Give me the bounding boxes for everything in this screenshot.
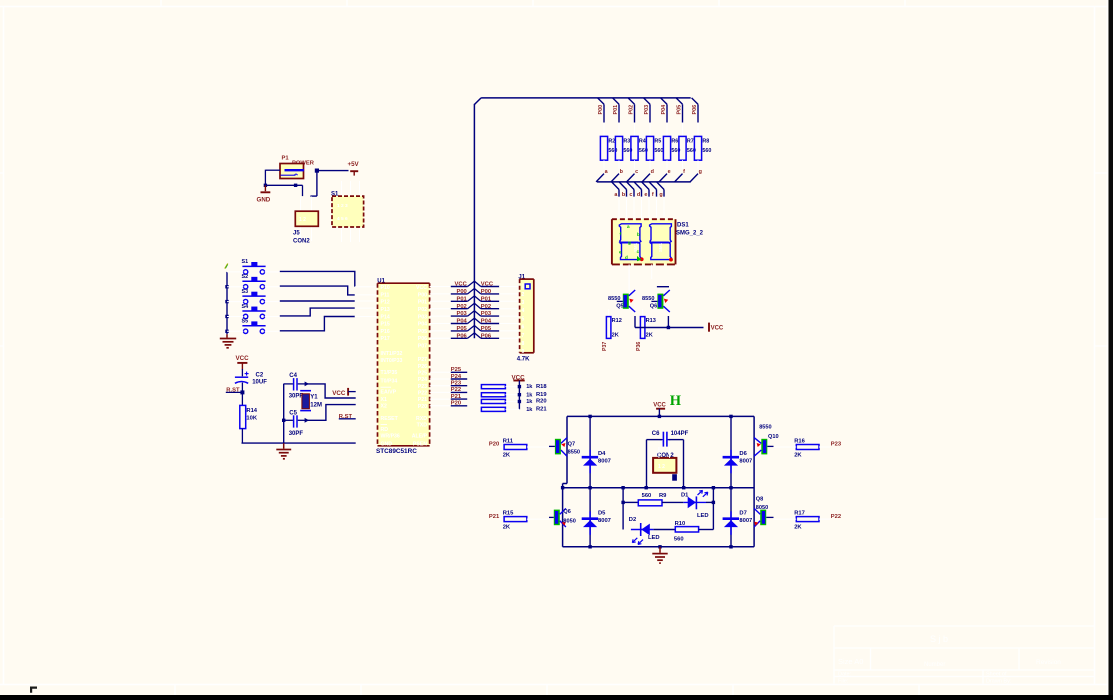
wire X1 bbox=[306, 384, 356, 398]
svg-text:560: 560 bbox=[702, 148, 711, 154]
power VCC bridge bbox=[653, 402, 666, 416]
svg-text:R2: R2 bbox=[608, 139, 615, 145]
bus entry P03 bbox=[644, 98, 650, 123]
wire switch common bus bbox=[226, 272, 228, 334]
svg-text:P21: P21 bbox=[418, 397, 427, 403]
svg-text:Q6: Q6 bbox=[650, 304, 657, 310]
net label P06 left bbox=[430, 333, 475, 340]
svg-text:560: 560 bbox=[642, 493, 652, 499]
IC U1 STC89C51RC bbox=[376, 279, 430, 455]
svg-text:GND: GND bbox=[381, 442, 393, 448]
svg-text:R16: R16 bbox=[794, 438, 805, 444]
svg-text:INT0/P33: INT0/P33 bbox=[381, 358, 403, 364]
transistor Q5 8550 bbox=[608, 279, 635, 312]
junction bbox=[645, 486, 648, 489]
svg-text:Size A0: Size A0 bbox=[838, 657, 863, 666]
svg-text:S1: S1 bbox=[242, 259, 249, 265]
svg-text:c: c bbox=[635, 169, 638, 175]
wire P1 to GND and +5V bbox=[265, 170, 302, 197]
resistor R21 1k bbox=[481, 407, 547, 413]
svg-text:10K: 10K bbox=[246, 416, 257, 422]
wire X2 bbox=[306, 405, 356, 421]
switch S3 bbox=[227, 289, 280, 304]
switch S1 block bbox=[331, 181, 364, 242]
svg-text:GND: GND bbox=[257, 197, 271, 204]
node marker bbox=[672, 474, 677, 481]
transistor Q7 8550 bbox=[549, 438, 580, 457]
svg-text:Drawn By:: Drawn By: bbox=[986, 679, 1012, 685]
svg-text:1: 1 bbox=[522, 284, 525, 290]
connector P1 POWER bbox=[280, 156, 315, 179]
svg-text:d: d bbox=[625, 255, 628, 260]
svg-text:RD: RD bbox=[381, 427, 389, 433]
net label segment a lower bbox=[612, 182, 619, 219]
svg-text:P00: P00 bbox=[598, 105, 604, 115]
LED D1 bbox=[681, 490, 713, 518]
svg-text:R12: R12 bbox=[612, 318, 622, 324]
svg-text:8007: 8007 bbox=[598, 459, 611, 465]
svg-text:Q6: Q6 bbox=[563, 509, 570, 515]
resistor R17 2K bbox=[774, 511, 842, 531]
junction bbox=[518, 393, 521, 396]
svg-text:8007: 8007 bbox=[598, 518, 611, 524]
svg-text:1 2: 1 2 bbox=[299, 217, 306, 223]
svg-text:S2: S2 bbox=[242, 274, 249, 280]
junction bbox=[588, 415, 591, 418]
svg-text:8: 8 bbox=[522, 341, 525, 347]
power +5V bbox=[348, 161, 360, 176]
svg-text:P01: P01 bbox=[418, 300, 427, 306]
net label VCC left bbox=[430, 281, 475, 288]
net label R.ST bbox=[226, 388, 243, 394]
power VCC driver bbox=[709, 323, 724, 332]
crystal Y1 12M bbox=[300, 391, 322, 411]
net label P01 right bbox=[474, 296, 519, 303]
switch S1 bbox=[227, 259, 280, 274]
junction bbox=[729, 486, 732, 489]
svg-text:File:: File: bbox=[838, 679, 849, 685]
resistor R20 1k bbox=[481, 399, 546, 405]
bus entry P00 bbox=[598, 98, 604, 123]
junction bbox=[225, 300, 228, 303]
net label P02 left bbox=[430, 303, 475, 310]
bus entry P01 bbox=[613, 98, 619, 123]
junction bbox=[518, 400, 521, 403]
svg-text:g: g bbox=[628, 240, 631, 245]
diode D5 8007 bbox=[582, 488, 611, 547]
svg-text:8550: 8550 bbox=[759, 425, 771, 431]
resistor R10 560 bbox=[674, 521, 714, 542]
junction bbox=[294, 184, 297, 187]
svg-text:2K: 2K bbox=[503, 525, 511, 531]
resistor R11 2K bbox=[489, 438, 549, 458]
svg-text:g: g bbox=[659, 192, 662, 198]
svg-text:2K: 2K bbox=[503, 452, 511, 458]
svg-text:R20: R20 bbox=[536, 399, 547, 405]
wire bottom rail bbox=[242, 442, 356, 444]
switch S4 bbox=[227, 304, 280, 319]
svg-text:P15: P15 bbox=[381, 322, 390, 328]
resistor R2 560 bbox=[600, 123, 617, 169]
svg-text:P27: P27 bbox=[418, 357, 427, 363]
ground bridge bbox=[652, 547, 667, 563]
svg-text:560: 560 bbox=[674, 536, 684, 542]
svg-text:P12: P12 bbox=[381, 300, 390, 306]
svg-text:Y1: Y1 bbox=[310, 394, 318, 400]
capacitor C4 30PF bbox=[284, 373, 306, 400]
wire S3 to P12 bbox=[280, 300, 355, 302]
svg-text:R11: R11 bbox=[503, 438, 514, 444]
svg-text:d: d bbox=[651, 169, 654, 175]
svg-text:Q7: Q7 bbox=[568, 442, 575, 448]
svg-text:1 2 3: 1 2 3 bbox=[337, 203, 348, 209]
net label P03 left bbox=[430, 311, 475, 318]
resistor R14 10K bbox=[240, 405, 258, 428]
svg-text:D7: D7 bbox=[739, 510, 746, 516]
switch S2 bbox=[227, 274, 280, 289]
wire S1 to P10 bbox=[280, 271, 355, 286]
svg-text:30PF: 30PF bbox=[289, 431, 304, 437]
net label P04 left bbox=[430, 318, 475, 325]
net label segment c upper bbox=[627, 169, 639, 182]
svg-text:P10: P10 bbox=[381, 285, 390, 291]
net label P01 left bbox=[430, 296, 475, 303]
svg-text:1k: 1k bbox=[526, 392, 533, 398]
wire R9 row left bbox=[623, 488, 638, 530]
connector J5 CON2 bbox=[293, 197, 318, 245]
svg-text:Sheet of: Sheet of bbox=[986, 672, 1007, 678]
svg-text:b: b bbox=[637, 232, 640, 237]
svg-text:R19: R19 bbox=[536, 392, 547, 398]
net label P23 stub bbox=[430, 381, 468, 387]
net label segment a upper bbox=[596, 169, 609, 182]
svg-text:g: g bbox=[699, 169, 702, 175]
svg-text:S3: S3 bbox=[242, 289, 249, 295]
switch S5 bbox=[227, 319, 280, 334]
svg-text:2K: 2K bbox=[794, 452, 802, 458]
svg-text:R4: R4 bbox=[639, 139, 646, 145]
wire base rail to VCC bbox=[635, 316, 704, 328]
svg-text:D6: D6 bbox=[739, 451, 747, 457]
svg-text:Date:: Date: bbox=[838, 672, 852, 678]
svg-text:d: d bbox=[637, 192, 640, 198]
svg-text:f: f bbox=[652, 192, 654, 198]
svg-text:LED: LED bbox=[648, 535, 660, 541]
svg-text:P22: P22 bbox=[831, 514, 841, 520]
svg-text:S5: S5 bbox=[242, 319, 249, 325]
svg-text:P26: P26 bbox=[418, 364, 427, 370]
svg-text:5: 5 bbox=[522, 316, 525, 322]
wire D1 right leg bbox=[712, 488, 714, 530]
svg-text:104PF: 104PF bbox=[671, 431, 689, 437]
resistor R13 2K bbox=[636, 309, 656, 351]
net label P25 stub bbox=[430, 367, 468, 373]
junction bbox=[305, 418, 309, 423]
connector CON2 motor bbox=[653, 447, 676, 473]
svg-text:P17: P17 bbox=[381, 336, 390, 342]
svg-text:TXD: TXD bbox=[417, 423, 428, 429]
wire C6 left leg bbox=[647, 440, 662, 488]
junction bbox=[282, 419, 285, 422]
junction bbox=[712, 486, 715, 489]
svg-text:C6: C6 bbox=[652, 431, 660, 437]
svg-text:P02: P02 bbox=[418, 307, 427, 313]
junction bbox=[588, 545, 591, 548]
svg-text:P04: P04 bbox=[661, 105, 667, 115]
svg-text:STC89C51RC: STC89C51RC bbox=[376, 448, 417, 455]
power VCC reset bbox=[236, 355, 250, 370]
net label segment f lower bbox=[649, 182, 656, 219]
svg-text:X1: X1 bbox=[381, 397, 387, 403]
net label segment d lower bbox=[634, 182, 641, 219]
svg-text:D4: D4 bbox=[598, 451, 606, 457]
svg-text:2K: 2K bbox=[794, 525, 802, 531]
net label segment g lower bbox=[657, 182, 664, 219]
svg-text:P36: P36 bbox=[636, 342, 642, 351]
svg-text:2: 2 bbox=[522, 292, 525, 298]
no-ERC marker bbox=[225, 264, 228, 269]
svg-text:RXD: RXD bbox=[416, 416, 427, 422]
svg-text:4.7K: 4.7K bbox=[517, 357, 530, 363]
svg-text:R9: R9 bbox=[659, 493, 667, 499]
display DS1 SMG_2_2 bbox=[612, 219, 704, 264]
svg-text:7: 7 bbox=[522, 333, 525, 339]
svg-text:R5: R5 bbox=[654, 139, 661, 145]
svg-text:R18: R18 bbox=[536, 384, 547, 390]
svg-text:2K: 2K bbox=[612, 333, 619, 339]
svg-text:VCC: VCC bbox=[416, 285, 427, 291]
wire S4 to P13 bbox=[280, 308, 355, 316]
wire Q6 collector bbox=[657, 286, 669, 288]
svg-text:SM1: SM1 bbox=[658, 242, 663, 252]
net label P22 stub bbox=[430, 387, 468, 393]
net label segment d upper bbox=[642, 169, 654, 182]
net label P05 left bbox=[430, 326, 475, 333]
svg-text:R17: R17 bbox=[794, 511, 805, 517]
wire VCC to C2 bbox=[241, 369, 243, 376]
svg-text:Number: Number bbox=[924, 662, 945, 668]
net label P20 stub bbox=[430, 401, 468, 407]
svg-text:S j b: S j b bbox=[930, 634, 948, 644]
svg-text:C2: C2 bbox=[256, 373, 264, 379]
net label segment c lower bbox=[627, 182, 634, 219]
junction bbox=[240, 390, 244, 394]
svg-text:P22: P22 bbox=[418, 391, 427, 397]
svg-text:VCC: VCC bbox=[711, 326, 724, 332]
svg-text:6: 6 bbox=[522, 325, 525, 331]
diode D6 8007 bbox=[723, 416, 753, 487]
svg-text:P24: P24 bbox=[418, 377, 427, 383]
node origin-marker bbox=[30, 687, 37, 693]
svg-text:560: 560 bbox=[654, 148, 663, 154]
svg-text:P1: P1 bbox=[282, 156, 290, 162]
wire crystal ground leg bbox=[283, 384, 285, 443]
capacitor C2 10UF bbox=[235, 372, 267, 386]
svg-text:e: e bbox=[644, 192, 647, 198]
junction bbox=[729, 415, 732, 418]
junction bbox=[667, 326, 670, 329]
svg-text:P03: P03 bbox=[644, 105, 650, 115]
svg-text:T0/P34: T0/P34 bbox=[381, 379, 398, 385]
wire bus vertical to top bbox=[473, 104, 475, 338]
wire C2 to R14 bbox=[241, 383, 243, 406]
junction bbox=[305, 382, 309, 387]
svg-text:R14: R14 bbox=[246, 408, 257, 414]
svg-text:1 2: 1 2 bbox=[658, 464, 665, 470]
svg-text:Q5: Q5 bbox=[616, 304, 623, 310]
svg-text:P04: P04 bbox=[418, 322, 427, 328]
net label VCC right bbox=[474, 281, 519, 288]
junction bbox=[518, 385, 521, 388]
power VCC EA pin bbox=[332, 388, 355, 397]
wire R14 to rail bbox=[241, 429, 243, 444]
svg-text:P01: P01 bbox=[613, 105, 619, 115]
svg-text:R6: R6 bbox=[671, 139, 678, 145]
resistor R19 1k bbox=[481, 392, 547, 398]
svg-text:R8: R8 bbox=[702, 139, 709, 145]
net label segment b upper bbox=[611, 169, 624, 182]
svg-text:P02: P02 bbox=[629, 105, 635, 115]
svg-text:P11: P11 bbox=[381, 292, 390, 298]
junction bbox=[225, 285, 228, 288]
net label segment e upper bbox=[659, 169, 671, 182]
svg-text:LED: LED bbox=[697, 513, 709, 519]
net label P00 right bbox=[474, 289, 519, 296]
junction bbox=[264, 184, 267, 187]
transistor Q6b 8050 bbox=[549, 508, 576, 527]
svg-text:VCC: VCC bbox=[653, 402, 666, 408]
net label P21 stub bbox=[430, 394, 468, 400]
digit 2 segments bbox=[650, 224, 673, 262]
svg-text:P23: P23 bbox=[831, 442, 842, 448]
svg-text:P07: P07 bbox=[418, 344, 427, 350]
svg-text:P20: P20 bbox=[489, 442, 499, 448]
svg-text:e: e bbox=[668, 169, 671, 175]
net label P04 right bbox=[474, 318, 519, 325]
wire bridge top rail bbox=[563, 416, 755, 546]
svg-text:9: 9 bbox=[522, 349, 525, 355]
svg-text:e: e bbox=[619, 250, 622, 255]
resistor R4 560 bbox=[631, 123, 648, 169]
svg-text:R13: R13 bbox=[646, 318, 656, 324]
svg-text:P05: P05 bbox=[677, 105, 683, 115]
capacitor C6 104PF bbox=[652, 431, 689, 446]
junction bbox=[621, 486, 624, 489]
svg-text:WR/P36: WR/P36 bbox=[381, 434, 400, 440]
junction bbox=[682, 486, 685, 489]
svg-text:P06: P06 bbox=[418, 336, 427, 342]
resistor R15 2K bbox=[489, 511, 549, 531]
svg-text:D5: D5 bbox=[598, 510, 606, 516]
svg-text:VCC: VCC bbox=[332, 390, 346, 397]
svg-text:10UF: 10UF bbox=[252, 380, 267, 386]
resistor R8 560 bbox=[694, 123, 711, 169]
svg-text:R15: R15 bbox=[503, 511, 514, 517]
svg-text:S4: S4 bbox=[242, 304, 249, 310]
svg-text:1k: 1k bbox=[526, 384, 533, 390]
svg-text:8550: 8550 bbox=[568, 449, 580, 455]
junction bbox=[658, 545, 661, 548]
junction bbox=[621, 501, 624, 504]
svg-text:R7: R7 bbox=[687, 139, 694, 145]
resistor R3 560 bbox=[615, 123, 632, 169]
svg-text:8050: 8050 bbox=[563, 519, 575, 525]
svg-text:CON2: CON2 bbox=[293, 239, 310, 245]
net label segment f upper bbox=[675, 169, 686, 182]
svg-text:8007: 8007 bbox=[739, 459, 752, 465]
junction bbox=[315, 169, 319, 173]
wire C6 right leg bbox=[668, 440, 683, 488]
svg-text:VCC: VCC bbox=[236, 355, 250, 362]
bus entry P05 bbox=[676, 98, 682, 123]
svg-text:R3: R3 bbox=[623, 139, 630, 145]
svg-text:1k: 1k bbox=[526, 399, 533, 405]
net label segment b lower bbox=[619, 182, 626, 219]
junction bbox=[729, 545, 732, 548]
resistor R7 560 bbox=[679, 123, 696, 169]
svg-text:2K: 2K bbox=[646, 333, 653, 339]
diode D7 8007 bbox=[723, 488, 753, 547]
svg-text:P16: P16 bbox=[381, 329, 390, 335]
wire to +5V bbox=[310, 171, 348, 197]
wire S2 to P11 bbox=[280, 286, 355, 295]
svg-text:a: a bbox=[627, 224, 630, 229]
net label P02 right bbox=[474, 303, 519, 310]
ground main bbox=[276, 443, 291, 459]
svg-text:ALE/P: ALE/P bbox=[412, 434, 428, 440]
svg-text:P13: P13 bbox=[381, 307, 390, 313]
digit 1 segments bbox=[619, 224, 644, 261]
power VCC pullups bbox=[512, 375, 526, 410]
diode D4 8007 bbox=[582, 416, 611, 487]
net label P00 left bbox=[430, 289, 475, 296]
net label R.ST reset pin bbox=[339, 414, 356, 420]
svg-text:3: 3 bbox=[522, 300, 525, 306]
junction bbox=[225, 315, 228, 318]
svg-text:1k: 1k bbox=[526, 407, 533, 413]
wire bridge mid rail bbox=[563, 487, 755, 489]
svg-text:30PF: 30PF bbox=[289, 394, 304, 400]
resistor network J1 4.7K bbox=[517, 275, 534, 363]
svg-text:PSEN: PSEN bbox=[413, 442, 427, 448]
svg-text:H: H bbox=[670, 393, 682, 409]
svg-text:12M: 12M bbox=[310, 402, 322, 408]
svg-text:8007: 8007 bbox=[739, 518, 752, 524]
svg-text:Revision: Revision bbox=[1036, 659, 1061, 666]
wire S5 to P14 bbox=[280, 317, 355, 331]
wire top bus bbox=[474, 98, 690, 105]
net label P24 stub bbox=[430, 374, 468, 380]
svg-text:R21: R21 bbox=[536, 407, 547, 413]
net label P05 right bbox=[474, 326, 519, 333]
net label segment g upper bbox=[690, 169, 702, 182]
svg-text:Q10: Q10 bbox=[768, 434, 779, 440]
svg-text:P25: P25 bbox=[418, 370, 427, 376]
resistor R5 560 bbox=[646, 123, 663, 169]
svg-text:P20: P20 bbox=[418, 404, 427, 410]
resistor R12 2K bbox=[602, 309, 622, 351]
svg-text:D2: D2 bbox=[629, 517, 636, 523]
net label segment e lower bbox=[642, 182, 649, 219]
svg-text:4: 4 bbox=[522, 308, 525, 314]
svg-text:P03: P03 bbox=[418, 314, 427, 320]
ground GND bbox=[257, 185, 271, 203]
svg-text:Q8: Q8 bbox=[756, 497, 763, 503]
transistor Q10 8550 bbox=[754, 425, 778, 457]
svg-text:RESET: RESET bbox=[381, 416, 399, 422]
svg-text:SM1: SM1 bbox=[633, 242, 638, 252]
LED D2 bbox=[629, 517, 676, 544]
